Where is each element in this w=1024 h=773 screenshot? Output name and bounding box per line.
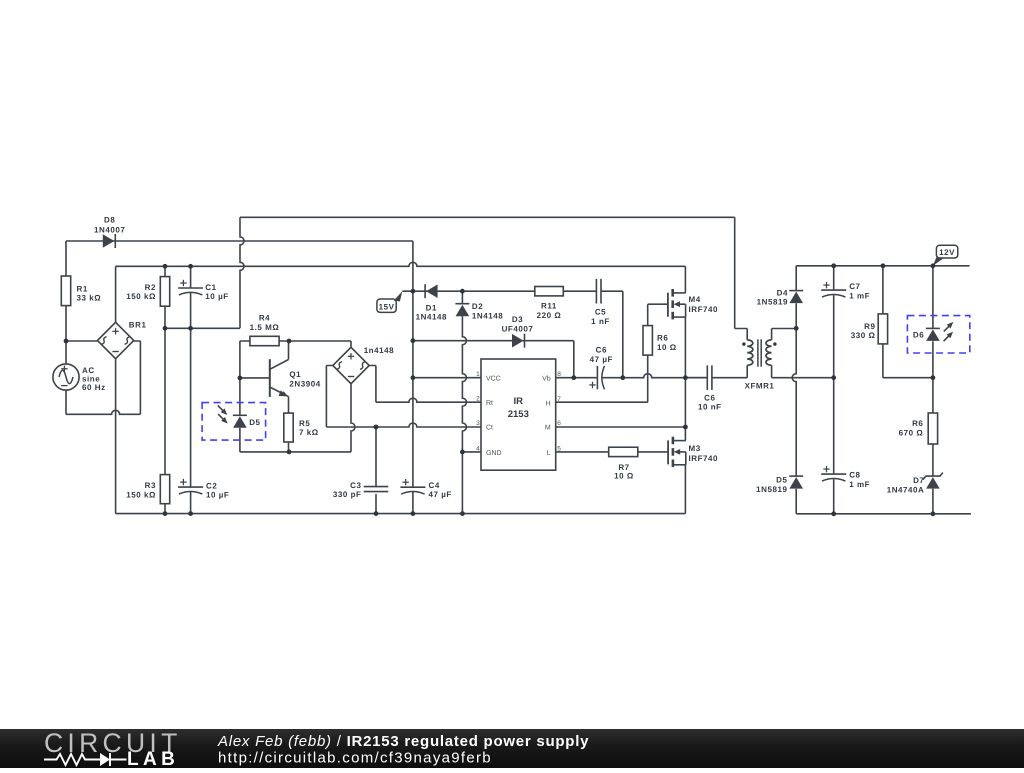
svg-text:1 nF: 1 nF <box>591 317 610 326</box>
svg-text:IRF740: IRF740 <box>689 454 719 463</box>
svg-text:C4: C4 <box>429 481 440 490</box>
svg-text:1N4740A: 1N4740A <box>887 486 925 495</box>
svg-text:4: 4 <box>476 445 480 452</box>
svg-text:H: H <box>546 401 551 408</box>
svg-text:VCC: VCC <box>486 375 501 382</box>
svg-text:C7: C7 <box>849 282 860 291</box>
svg-text:8: 8 <box>557 371 561 378</box>
svg-text:7: 7 <box>557 396 561 403</box>
svg-text:BR1: BR1 <box>129 321 147 330</box>
svg-text:R11: R11 <box>541 302 557 311</box>
svg-text:C6: C6 <box>596 346 607 355</box>
svg-text:R5: R5 <box>299 419 310 428</box>
svg-text:330 pF: 330 pF <box>333 490 362 499</box>
svg-text:1n4148: 1n4148 <box>364 346 394 355</box>
svg-text:6: 6 <box>557 420 561 427</box>
svg-text:1N5819: 1N5819 <box>756 485 787 494</box>
svg-text:http://circuitlab.com/cf39naya: http://circuitlab.com/cf39naya9ferb <box>218 750 492 767</box>
svg-text:10 Ω: 10 Ω <box>614 472 634 481</box>
svg-text:D6: D6 <box>913 331 924 340</box>
svg-text:Alex Feb (febb) / IR2153 regul: Alex Feb (febb) / IR2153 regulated power… <box>217 733 589 750</box>
svg-text:R1: R1 <box>77 285 88 294</box>
svg-text:5: 5 <box>557 445 561 452</box>
svg-text:D3: D3 <box>512 315 523 324</box>
svg-text:220 Ω: 220 Ω <box>537 311 562 320</box>
svg-text:D8: D8 <box>104 216 115 225</box>
svg-text:1.5 MΩ: 1.5 MΩ <box>250 323 280 332</box>
svg-text:D2: D2 <box>472 302 483 311</box>
svg-text:C1: C1 <box>205 283 216 292</box>
svg-text:1N4148: 1N4148 <box>416 313 447 322</box>
svg-text:D5: D5 <box>249 418 260 427</box>
svg-text:670 Ω: 670 Ω <box>899 428 924 437</box>
svg-text:IRF740: IRF740 <box>689 305 719 314</box>
svg-text:150 kΩ: 150 kΩ <box>126 491 156 500</box>
svg-text:C5: C5 <box>595 308 606 317</box>
svg-text:C6: C6 <box>704 394 715 403</box>
svg-text:2: 2 <box>476 395 480 402</box>
svg-text:D4: D4 <box>777 288 788 297</box>
svg-text:10 µF: 10 µF <box>206 491 229 500</box>
svg-text:UF4007: UF4007 <box>502 325 534 334</box>
svg-text:1N4148: 1N4148 <box>472 311 503 320</box>
svg-text:LAB: LAB <box>127 749 179 768</box>
svg-text:M: M <box>545 425 551 432</box>
svg-text:R2: R2 <box>145 283 156 292</box>
svg-text:10 Ω: 10 Ω <box>657 343 677 352</box>
svg-text:R9: R9 <box>864 322 875 331</box>
svg-text:XFMR1: XFMR1 <box>745 382 775 391</box>
svg-text:10 µF: 10 µF <box>205 292 228 301</box>
svg-text:Q1: Q1 <box>289 370 301 379</box>
svg-text:D7: D7 <box>913 476 924 485</box>
svg-text:1 mF: 1 mF <box>849 480 870 489</box>
svg-text:M3: M3 <box>689 444 701 453</box>
svg-text:330 Ω: 330 Ω <box>851 331 876 340</box>
svg-text:2153: 2153 <box>508 409 529 420</box>
svg-text:1N5819: 1N5819 <box>757 297 788 306</box>
svg-text:7 kΩ: 7 kΩ <box>299 428 319 437</box>
svg-text:D1: D1 <box>426 304 437 313</box>
svg-text:60 Hz: 60 Hz <box>82 383 106 392</box>
svg-text:3: 3 <box>476 420 480 427</box>
svg-text:L: L <box>547 450 551 457</box>
svg-text:2N3904: 2N3904 <box>289 380 320 389</box>
svg-text:D5: D5 <box>776 475 787 484</box>
svg-text:10 nF: 10 nF <box>698 403 722 412</box>
svg-text:47 µF: 47 µF <box>590 355 613 364</box>
svg-text:IR: IR <box>514 396 524 407</box>
svg-text:Rt: Rt <box>486 400 493 407</box>
svg-text:1N4007: 1N4007 <box>94 226 125 235</box>
svg-text:C2: C2 <box>206 482 217 491</box>
svg-text:R6: R6 <box>912 419 923 428</box>
svg-text:R3: R3 <box>145 481 156 490</box>
svg-text:12V: 12V <box>939 248 955 257</box>
svg-text:15V: 15V <box>379 302 395 311</box>
svg-text:Vb: Vb <box>542 374 551 382</box>
svg-text:R4: R4 <box>259 314 270 323</box>
svg-text:R6: R6 <box>657 334 668 343</box>
svg-text:33 kΩ: 33 kΩ <box>77 294 102 303</box>
svg-text:GND: GND <box>486 450 502 457</box>
svg-text:1 mF: 1 mF <box>849 291 870 300</box>
svg-text:M4: M4 <box>689 295 701 304</box>
svg-text:C8: C8 <box>849 470 860 479</box>
svg-text:Ct: Ct <box>486 425 493 432</box>
svg-text:150 kΩ: 150 kΩ <box>126 292 156 301</box>
svg-text:C3: C3 <box>350 481 361 490</box>
svg-text:1: 1 <box>476 371 480 378</box>
svg-text:47 µF: 47 µF <box>429 490 452 499</box>
